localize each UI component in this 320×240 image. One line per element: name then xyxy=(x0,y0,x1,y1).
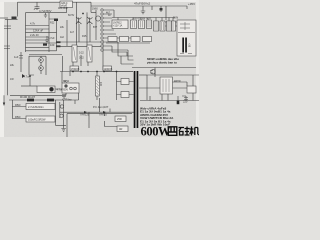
svg-text:47uF/50Vx2: 47uF/50Vx2 xyxy=(134,2,151,6)
svg-text:4R: 4R xyxy=(119,127,122,131)
svg-text:0.22: 0.22 xyxy=(79,57,84,60)
svg-text:4R7W: 4R7W xyxy=(174,80,181,83)
svg-text:+4.7uF: +4.7uF xyxy=(22,75,31,79)
svg-text:1uF: 1uF xyxy=(14,55,19,59)
svg-text:25R: 25R xyxy=(117,117,122,121)
svg-text:4.7uF/50V: 4.7uF/50V xyxy=(57,89,69,92)
svg-text:P.C 4em,R2T: P.C 4em,R2T xyxy=(93,105,109,109)
svg-text:+35: +35 xyxy=(188,43,191,48)
svg-text:+35V: +35V xyxy=(188,2,195,6)
svg-text:100uF/2.5R2W: 100uF/2.5R2W xyxy=(28,118,46,122)
svg-text:2.2k 40: 2.2k 40 xyxy=(30,33,39,37)
svg-text:4.7R bw: 4.7R bw xyxy=(62,98,72,102)
svg-text:yinshua dianlu ban tu: yinshua dianlu ban tu xyxy=(147,61,177,65)
svg-text:R100 R107: R100 R107 xyxy=(20,95,36,99)
svg-text:0.22: 0.22 xyxy=(79,52,84,55)
svg-text:KR12: KR12 xyxy=(63,80,70,83)
svg-text:220: 220 xyxy=(183,100,188,104)
svg-text:12AX uF: 12AX uF xyxy=(33,28,44,32)
svg-text:120R25: 120R25 xyxy=(104,68,113,71)
svg-text:4u7: 4u7 xyxy=(70,31,75,34)
svg-text:100: 100 xyxy=(50,43,55,47)
svg-text:103 472 104 1n 22: 103 472 104 1n 22 xyxy=(133,18,152,20)
svg-text:GrRJy: GrRJy xyxy=(61,2,68,5)
svg-text:TRK125: TRK125 xyxy=(80,113,90,116)
svg-text:1N60: 1N60 xyxy=(92,8,98,11)
svg-text:400.3kR: 400.3kR xyxy=(58,6,68,10)
svg-text:600W: 600W xyxy=(141,125,172,138)
svg-text:170R25: 170R25 xyxy=(71,68,80,71)
svg-text:R22: R22 xyxy=(50,22,55,25)
svg-text:4.7k: 4.7k xyxy=(30,22,36,26)
svg-text:4.7uF/50V: 4.7uF/50V xyxy=(39,9,52,13)
svg-text:R50r: R50r xyxy=(15,115,21,119)
svg-text:4.7uF: 4.7uF xyxy=(48,36,55,40)
svg-text:DIN: DIN xyxy=(173,16,178,20)
svg-text:100: 100 xyxy=(99,82,102,87)
svg-text:TRK25: TRK25 xyxy=(99,113,107,116)
svg-text:60.5V: 60.5V xyxy=(68,14,75,17)
svg-text:2.7uF/R220m: 2.7uF/R220m xyxy=(28,105,44,109)
svg-text:R15: R15 xyxy=(82,35,87,38)
svg-text:R50r: R50r xyxy=(15,103,21,107)
svg-text:B77: B77 xyxy=(93,26,98,29)
svg-text:1k2: 1k2 xyxy=(60,36,65,39)
svg-text:+12V 1A: +12V 1A xyxy=(113,24,123,27)
